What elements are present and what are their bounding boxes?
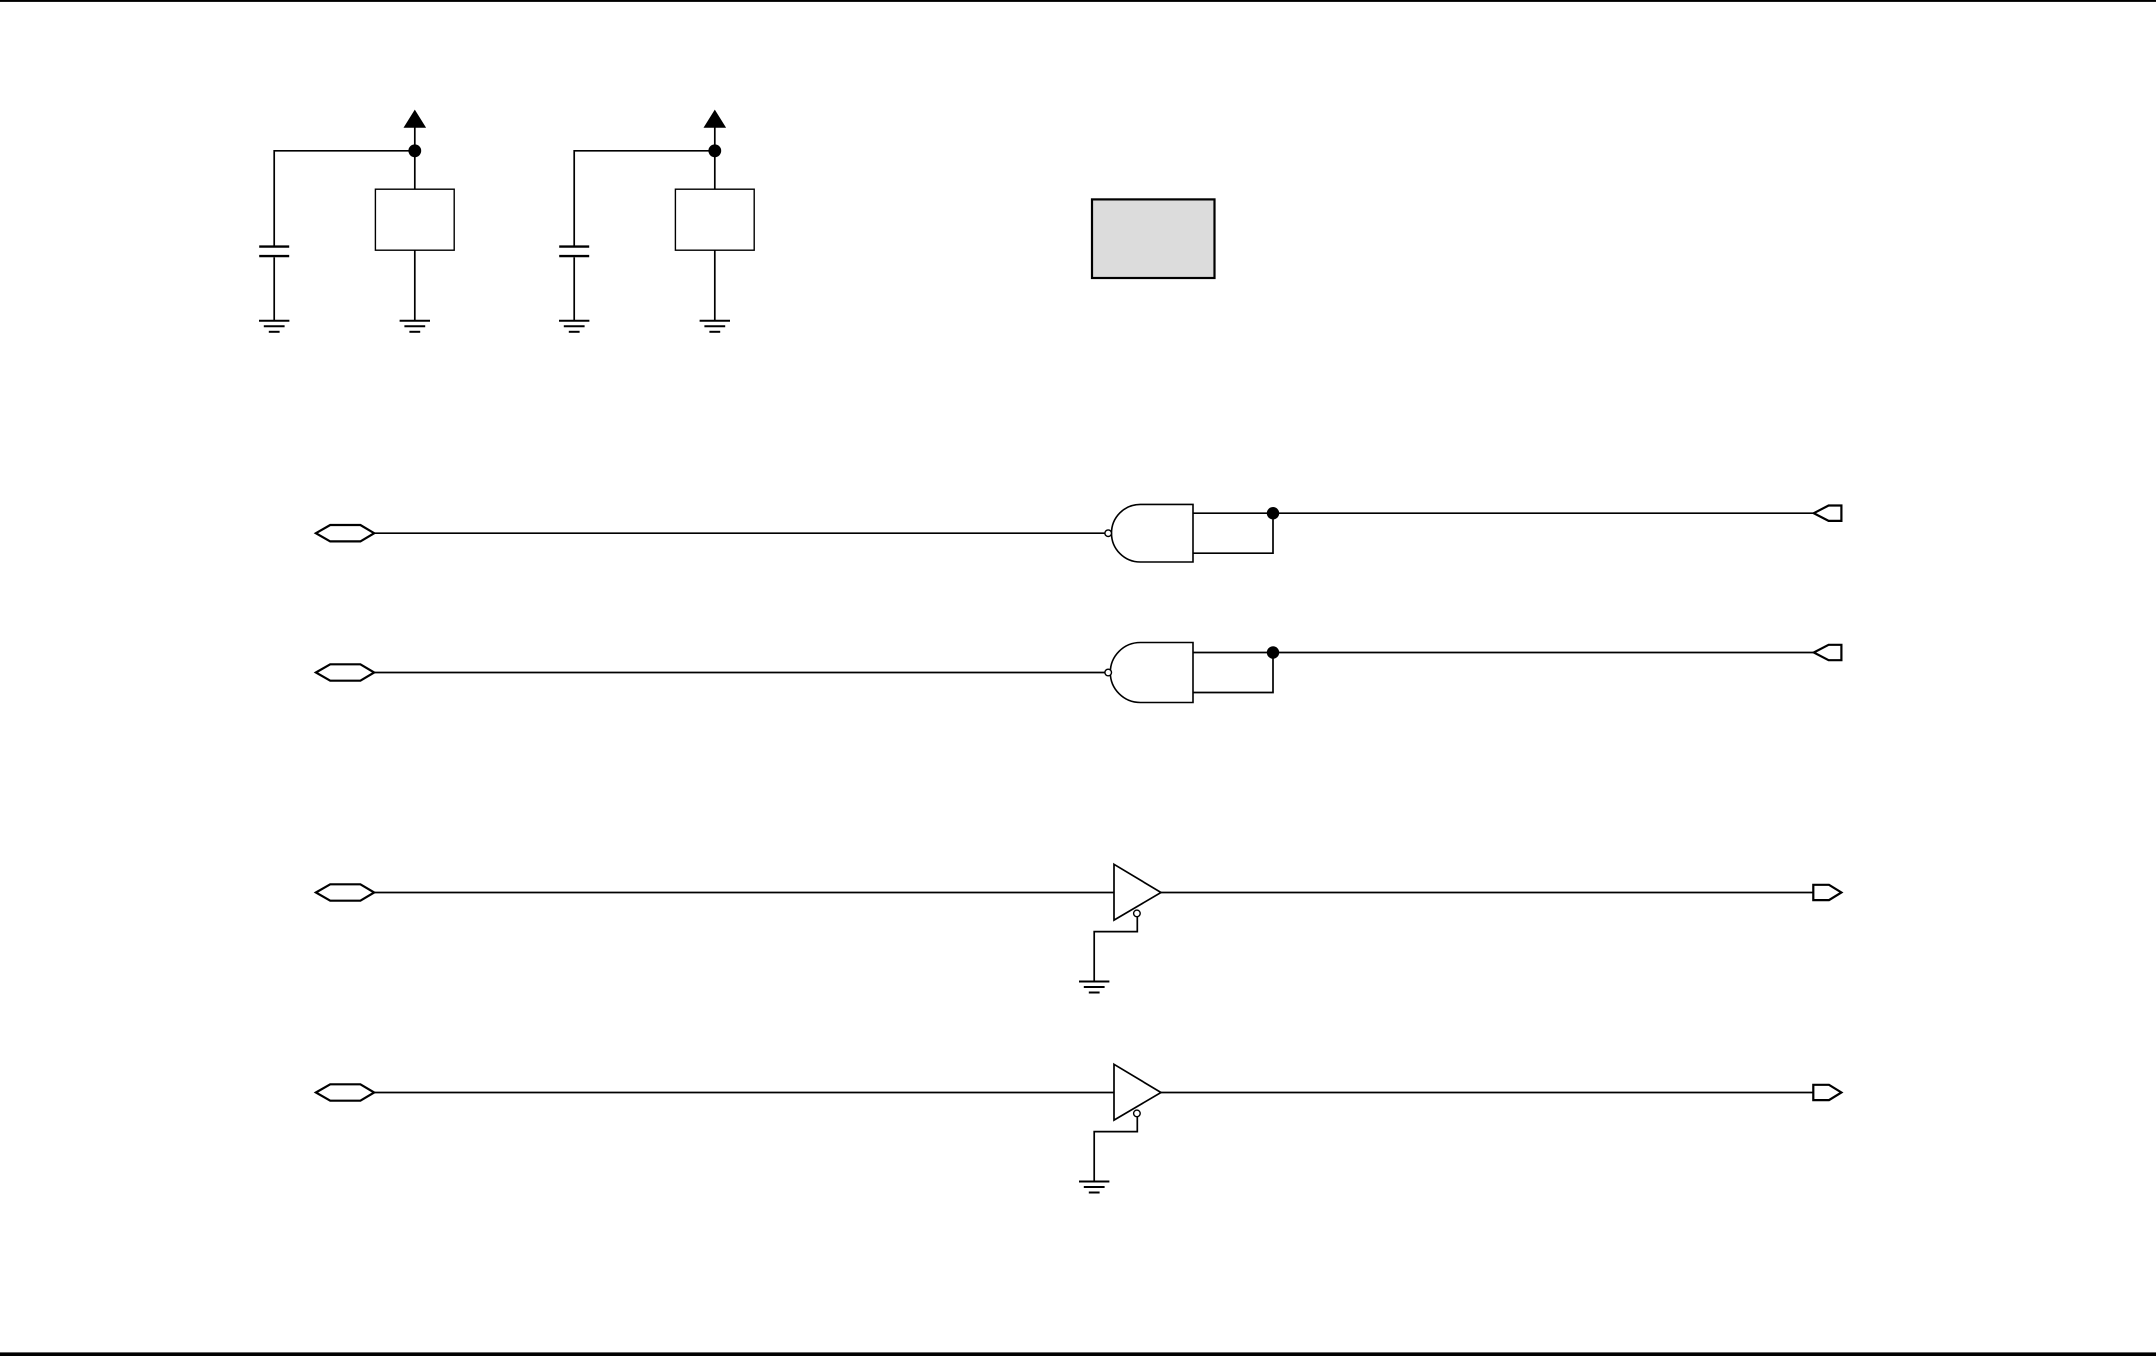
wire output row 3 [1161, 892, 1814, 894]
output port connector (right-pointing tag) row 3 [1813, 885, 1841, 900]
output port connector (left-pointing tag) row 1 [1814, 506, 1842, 521]
ground (C2) [559, 321, 589, 332]
wire U1 to ground [414, 250, 416, 320]
output port connector (left-pointing tag) row 2 [1814, 645, 1842, 660]
input port connector (hexagon) row 4 [316, 1084, 374, 1100]
tri-state buffer U4B [1114, 1064, 1161, 1120]
input port connector (hexagon) row 3 [316, 884, 374, 900]
wire enable to ground row 4 [1094, 1117, 1137, 1181]
wire lower gate input stub row 2 [1193, 653, 1273, 693]
component box U1 (ferrite bead/regulator) [375, 189, 454, 250]
wire input row 2 [374, 672, 1105, 674]
wire VCC2 junction to U2 [714, 151, 716, 189]
power symbol VCC2 [704, 111, 725, 151]
wire to output connector row 2 [1273, 652, 1814, 654]
capacitor C1 [259, 247, 289, 257]
ground (row 3 enable) [1079, 982, 1109, 993]
output port connector (right-pointing tag) row 4 [1813, 1085, 1841, 1100]
component block (gray box) [1092, 199, 1215, 278]
wire input row 3 [374, 892, 1114, 894]
AND gate U3B (mirrored, inverted output on left) [1105, 643, 1193, 703]
node VCC1 junction dot [408, 144, 421, 157]
wire C1 to ground [273, 257, 275, 320]
power symbol VCC1 [404, 111, 425, 151]
AND gate U3A (mirrored, inverted output on left) [1105, 504, 1193, 562]
wire lower gate input stub row 1 [1193, 513, 1273, 553]
wire input row 4 [374, 1092, 1114, 1094]
wire VCC1 to C1 [274, 151, 415, 246]
node VCC2 junction dot [708, 144, 721, 157]
component box U2 (ferrite bead/regulator) [675, 189, 754, 250]
wire output row 4 [1161, 1092, 1814, 1094]
capacitor C2 [559, 247, 589, 257]
wire upper gate input stub row 1 [1193, 512, 1273, 514]
wire upper gate input stub row 2 [1193, 652, 1273, 654]
wire to output connector row 1 [1273, 512, 1814, 514]
ground (U2) [700, 321, 730, 332]
junction dot row 1 [1267, 507, 1279, 519]
tri-state buffer U4A [1114, 864, 1161, 920]
junction dot row 2 [1267, 646, 1279, 658]
wire VCC1 junction to U1 [414, 151, 416, 189]
ground (row 4 enable) [1079, 1182, 1109, 1193]
ground (U1) [400, 321, 430, 332]
wire VCC2 to C2 [574, 151, 715, 246]
input port connector (hexagon) row 1 [316, 525, 374, 541]
wire U2 to ground [714, 250, 716, 320]
enable bubble U4B [1134, 1110, 1141, 1117]
input port connector (hexagon) row 2 [316, 664, 374, 680]
wire input row 1 [374, 532, 1105, 534]
wire enable to ground row 3 [1094, 917, 1137, 981]
ground (C1) [259, 321, 289, 332]
enable bubble U4A [1134, 910, 1141, 917]
wire C2 to ground [573, 257, 575, 320]
